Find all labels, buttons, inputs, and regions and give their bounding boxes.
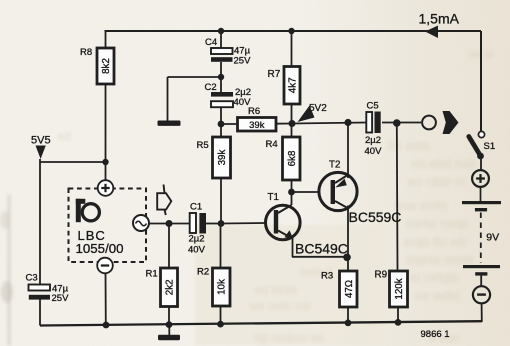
capacitor C5 2u2 40V [365,101,383,158]
wire R1 top stub [168,224,170,269]
mic capsule symbol [76,199,100,222]
wire mic minus to bottom rail [105,274,107,325]
wire T2 emitter up [347,123,349,179]
wire R8 top stub [105,31,107,48]
wire R2 top stub [220,224,222,269]
wire R5 top stub [220,124,222,137]
wire battery minus to bottom rail [481,305,483,323]
resistor R4 6k8 [266,137,301,180]
resistor R6 39k [238,106,277,131]
resistor R5 39k [197,137,231,178]
wire R4 bottom stub [291,180,293,192]
wire R8 bottom stub [105,84,107,162]
resistor R1 2k2 [146,268,178,307]
wire ground stub below rail [168,325,170,336]
output socket circle [422,116,436,130]
AC source symbol [133,215,149,231]
ground (C4/C2 branch) [158,121,181,126]
wire C2 top stub [220,62,222,92]
wire R3 top stub [347,257,349,271]
wire R5 bottom stub [220,178,222,224]
wire R3 bottom stub [347,307,349,323]
wire node C to T2 base [292,191,319,193]
wire T2 collector down [347,206,349,258]
wire T1 emitter down [292,238,294,257]
ground (R1 branch) [158,335,180,340]
node 5V5 [31,134,51,159]
wire switch to battery [480,157,482,171]
wire emitter to R3 junction [292,256,348,258]
mic plus terminal [98,180,114,196]
wire C1 to node B [206,223,221,225]
resistor R2 10k [197,267,230,307]
wire bottom rail [40,321,482,325]
capacitor C4 47u 25V [205,37,251,67]
wire ground branch vertical [167,77,169,121]
wire R6 left stub [221,123,238,125]
wire R4 top stub [291,124,293,138]
wire R1 bottom stub [168,307,170,325]
wire junction to mic plus [105,162,107,181]
wire C5 to output [382,122,421,124]
svg-text:9866 1: 9866 1 [421,329,450,340]
current arrow 1,5mA [419,11,460,39]
capacitor C3 47u 25V [26,273,70,305]
wire ground branch horizontal [168,76,222,78]
battery 9V [462,170,501,303]
wire node 5V2 to C5 [292,123,367,124]
resistor R3 47ohm [321,271,357,308]
wire R7 top stub [291,31,293,67]
output arrow [443,111,459,134]
wire node A to C1 [169,223,190,225]
wire left column upper [39,159,41,285]
wire 5V5 branch horizontal [40,161,106,163]
wire R6 right stub [276,123,292,125]
node 5V2 [298,103,328,122]
wire R9 bottom stub [397,307,399,323]
transistor T2 BC559C [319,160,357,211]
resistor R8 8k2 [80,47,114,84]
wire left column lower [39,299,41,326]
capacitor C2 2u2 40V [205,82,252,108]
wire R2 bottom stub [220,306,222,324]
wire node B to T1 base [221,222,265,225]
transistor T1 BC549C [266,192,301,240]
wire right vertical to switch [480,31,482,131]
mic minus terminal [97,258,113,274]
resistor R7 4k7 [268,67,301,105]
resistor R9 120k [375,270,408,308]
microphone box LBC 1055/00 [69,180,147,273]
wire C4 top stub [220,31,222,48]
wire top rail [105,30,482,32]
off-board arrow symbol [157,185,171,216]
wire R9 top stub [396,123,399,271]
wire T1 collector stub [291,192,293,205]
wire C2 bottom stub [220,108,222,124]
wire R7 bottom stub [291,104,293,124]
switch S1 [469,131,495,159]
wire mic output to node A [150,223,170,225]
capacitor C1 2u2 40V [188,202,206,256]
